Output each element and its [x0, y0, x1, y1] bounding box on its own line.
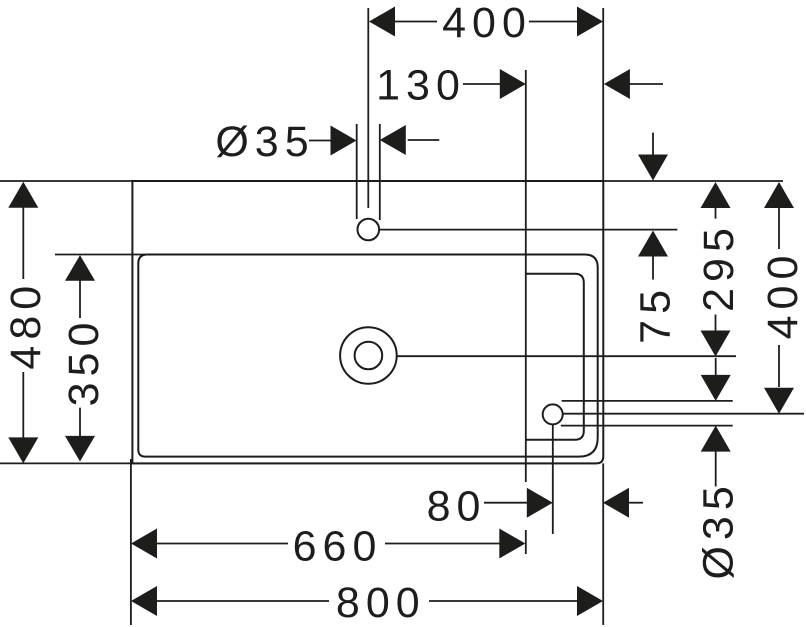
svg-text:350: 350: [60, 317, 108, 407]
inner shelf extension line: [525, 70, 527, 482]
svg-text:130: 130: [376, 62, 466, 110]
overflow hole circle: [543, 404, 563, 424]
dimension 75 right: [632, 133, 680, 344]
tap shelf inner contour: [526, 274, 584, 440]
dimension 80 bottom: [427, 483, 643, 531]
svg-text:400: 400: [442, 0, 532, 47]
right edge lower extension line: [602, 463, 604, 625]
dimension diameter 35 overflow right: [694, 358, 742, 580]
overflow top leader line: [562, 400, 733, 402]
drain leader line: [397, 355, 736, 357]
svg-text:480: 480: [2, 280, 50, 370]
inner shelf extension line lower segment: [525, 530, 527, 554]
tap hole centerline: [367, 8, 369, 208]
tap hole left edge line: [356, 124, 358, 219]
right edge upper extension line: [602, 8, 604, 181]
dimension 400 top: [369, 0, 603, 47]
dimension 350 left: [60, 255, 108, 461]
dimension 480 left: [2, 182, 50, 464]
drain outer circle: [340, 327, 397, 384]
dimension 660 bottom: [131, 523, 525, 571]
tap hole right edge line: [379, 124, 381, 220]
washbasin outer rim rectangle: [132, 181, 603, 463]
drain inner circle: [355, 342, 383, 370]
overflow bottom leader line: [561, 425, 733, 427]
dimension 295 right: [695, 182, 743, 357]
dimension 800 bottom: [131, 579, 603, 627]
overflow center leader line: [563, 413, 804, 415]
svg-text:295: 295: [695, 222, 743, 312]
tap hole circle: [358, 219, 380, 241]
svg-text:Ø35: Ø35: [694, 480, 742, 579]
bowl top edge extension line: [55, 254, 585, 256]
left edge lower extension line: [130, 459, 132, 625]
dimension 130 top: [376, 62, 663, 110]
bottom edge extension line: [0, 462, 596, 464]
svg-text:660: 660: [293, 523, 383, 571]
svg-text:800: 800: [336, 579, 426, 627]
dimension diameter 35 tap hole: [215, 118, 439, 166]
svg-text:Ø35: Ø35: [215, 118, 314, 166]
svg-text:75: 75: [632, 284, 680, 344]
basin bowl rounded rectangle: [138, 255, 597, 457]
svg-text:400: 400: [759, 250, 806, 340]
svg-text:80: 80: [427, 483, 487, 531]
dimension 400 right: [759, 182, 806, 414]
top edge extension line: [0, 180, 783, 182]
overflow hole centerline lower: [552, 425, 554, 534]
tap hole leader line: [379, 229, 677, 231]
